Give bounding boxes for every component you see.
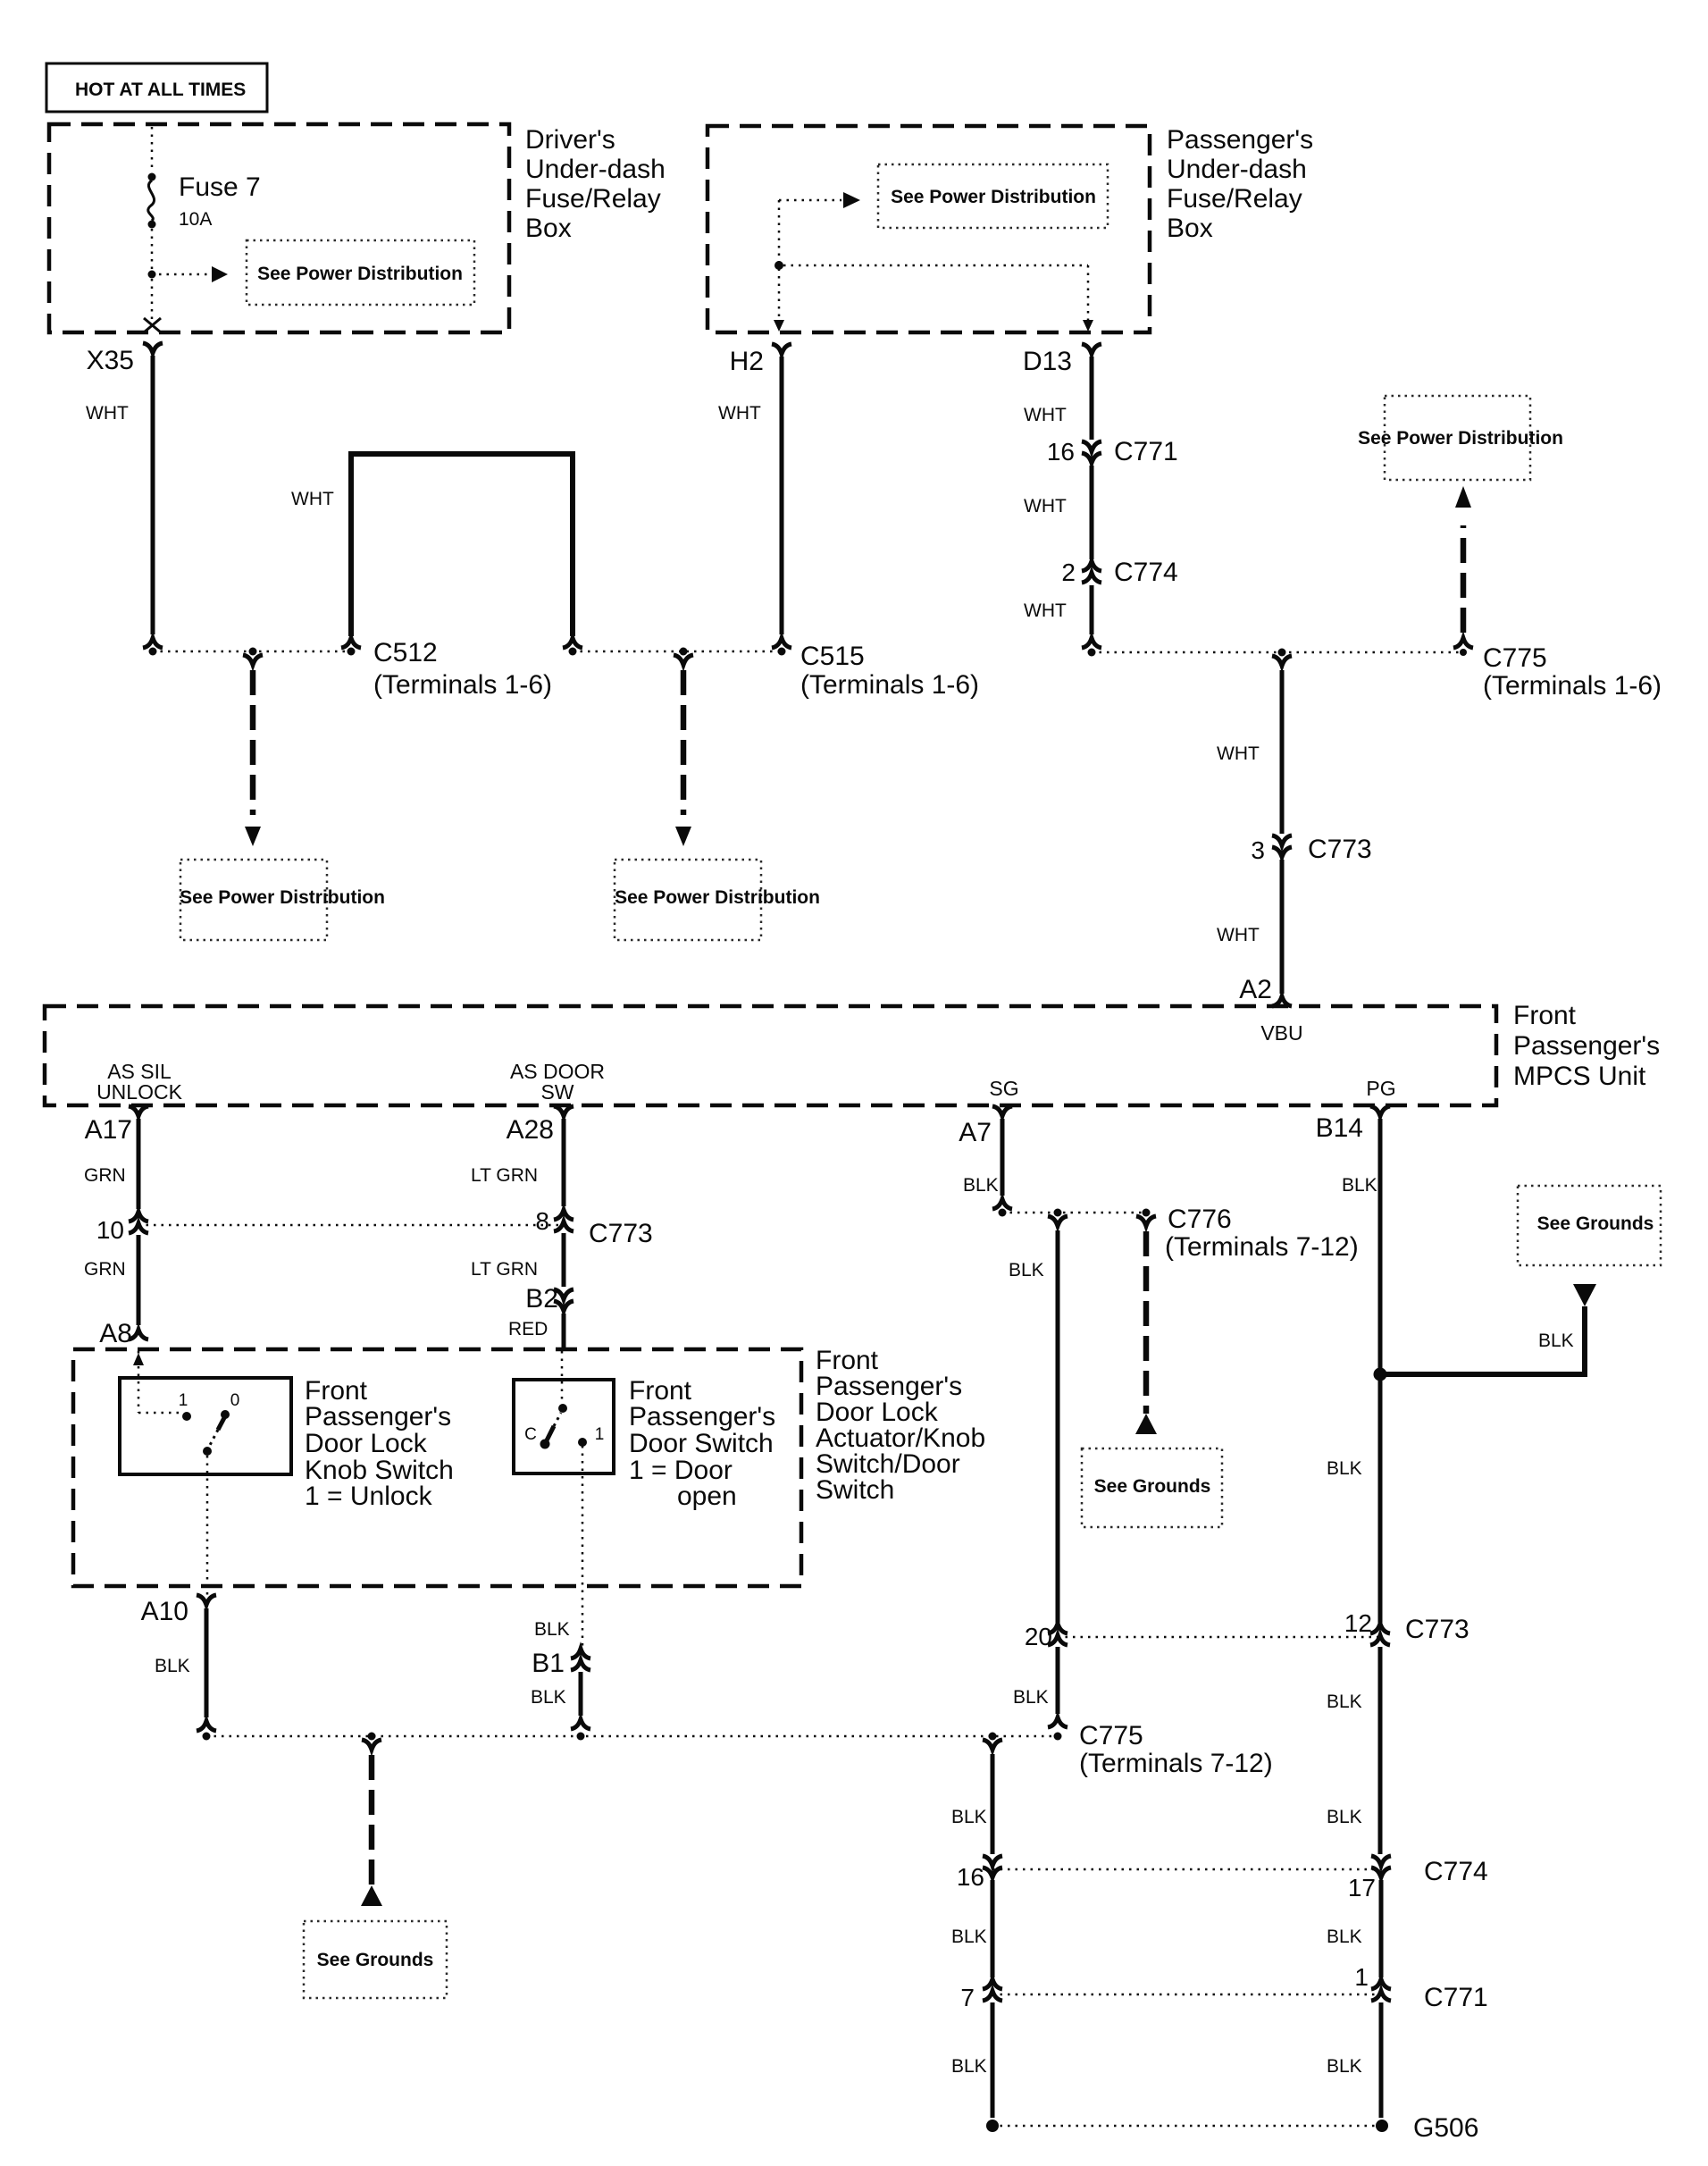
wire: dotted splice line to C776 (1002, 1212, 1146, 1214)
node: ground bus dot at lower-left column (989, 1733, 997, 1741)
switch lever (knob switch) (208, 1413, 227, 1448)
connector C773 pin 10 (96, 1212, 148, 1244)
wire WHT: C774 down to bus (1024, 585, 1101, 648)
wire: dotted connector alignment line pins 20-12 (1058, 1636, 1380, 1639)
wire BLK: A10 down to ground bus (155, 1608, 216, 1731)
wire WHT: H2 down to bus (718, 357, 791, 648)
wire BLK: A7 down to splice (963, 1119, 1012, 1209)
svg-text:C773: C773 (1405, 1615, 1469, 1644)
terminal A8 (knob switch) (99, 1319, 148, 1348)
svg-text:B2: B2 (525, 1284, 558, 1314)
svg-text:BLK: BLK (1327, 1692, 1362, 1712)
svg-text:A2: A2 (1239, 975, 1272, 1004)
svg-text:Front: Front (1513, 1001, 1577, 1030)
svg-text:BLK: BLK (531, 1687, 566, 1708)
svg-text:C774: C774 (1114, 558, 1178, 587)
svg-text:12: 12 (1344, 1609, 1372, 1637)
svg-text:LT GRN: LT GRN (471, 1259, 538, 1280)
node: See Power Distribution reference (right) (1358, 396, 1563, 480)
wire BLK: pin 17 down to pin 1 (1327, 1880, 1381, 1977)
svg-text:See Grounds: See Grounds (1537, 1213, 1654, 1234)
wire: dotted splice bus C515 (573, 651, 782, 653)
svg-text:BLK: BLK (951, 2056, 987, 2077)
terminal A2 (MPCS VBU input) (1239, 975, 1292, 1006)
node: See Power Distribution reference (middle lower) (615, 860, 820, 940)
node: See Power Distribution reference (passenger box) (878, 164, 1108, 228)
svg-text:WHT: WHT (86, 403, 129, 424)
node: branch dot to See Grounds (368, 1733, 376, 1741)
terminal B14 (1316, 1106, 1390, 1143)
wire: dashed arrow up to See Power Distribution (right) (1453, 486, 1473, 648)
svg-text:GRN: GRN (84, 1259, 126, 1280)
svg-text:20: 20 (1025, 1623, 1052, 1650)
connector C773 pin 8 (535, 1207, 652, 1248)
node: See Grounds reference (bottom middle) (304, 1921, 447, 1998)
wire BLK: B1 down to ground bus (531, 1672, 590, 1729)
switch: Front Passenger's Door Switch (514, 1376, 775, 1511)
wire: dotted below fuse (151, 229, 154, 271)
wire: dotted arrow to See Power Distribution (passenger box) (779, 199, 841, 202)
wire BLK: pin 12 down to pin 17 (1327, 1647, 1380, 1854)
svg-text:A17: A17 (85, 1115, 132, 1145)
wire WHT: bridge jumper between C512 and C515 buses (291, 454, 582, 648)
wire WHT: bus down to connector C773 pin 3 (1217, 656, 1292, 834)
switch lever (door switch) (545, 1413, 561, 1444)
node: splice dot at A2 branch (1278, 649, 1286, 657)
svg-text:1: 1 (179, 1391, 188, 1410)
label: connector C512 (373, 638, 552, 700)
node: branch dot to power distribution (second) (680, 648, 688, 656)
connector B2 (525, 1284, 574, 1314)
terminal H2 (730, 344, 791, 376)
svg-text:BLK: BLK (1009, 1260, 1044, 1280)
wire: dotted down to X35 exit with X mark (151, 279, 154, 320)
svg-text:Switch: Switch (816, 1475, 894, 1505)
svg-text:WHT: WHT (1217, 743, 1260, 764)
svg-text:RED: RED (508, 1319, 548, 1339)
svg-text:Passenger's: Passenger's (1167, 125, 1313, 155)
svg-text:Under-dash: Under-dash (1167, 155, 1307, 184)
svg-text:Box: Box (1167, 214, 1213, 243)
node: ground bus dot at C775 (1054, 1733, 1062, 1741)
svg-text:C771: C771 (1424, 1983, 1488, 2012)
svg-text:Box: Box (525, 214, 572, 243)
wire BLK: pin 20 down to C775 stub (1013, 1647, 1067, 1727)
svg-text:1 = Unlock: 1 = Unlock (305, 1482, 433, 1511)
svg-text:See Grounds: See Grounds (1094, 1476, 1211, 1497)
wire WHT: C773 down to MPCS terminal A2 (1217, 860, 1282, 994)
connector C773 pin 3 (1251, 835, 1371, 864)
svg-text:Passenger's: Passenger's (1513, 1031, 1660, 1061)
svg-text:BLK: BLK (155, 1656, 190, 1676)
svg-text:10: 10 (96, 1216, 124, 1244)
node: branch junction to power distribution arrow (148, 271, 156, 279)
svg-text:16: 16 (957, 1863, 984, 1891)
svg-text:Fuse 7: Fuse 7 (179, 172, 261, 202)
wire: dashed arrow down to See Power Distribution (second) (674, 655, 693, 846)
svg-text:BLK: BLK (1013, 1687, 1049, 1708)
component: Driver's Under-dash Fuse/Relay Box (dashed enclosure) (49, 124, 666, 332)
svg-text:VBU: VBU (1260, 1021, 1302, 1045)
svg-text:C: C (524, 1425, 537, 1444)
svg-text:A10: A10 (141, 1597, 188, 1626)
node: See Grounds reference (middle) (1082, 1448, 1222, 1527)
svg-text:C515: C515 (800, 642, 865, 671)
wire: dotted ground splice bus (206, 1735, 1059, 1738)
svg-text:C775: C775 (1079, 1721, 1143, 1750)
terminal A28 (507, 1106, 574, 1145)
wire: dotted splice bus C512 (153, 651, 351, 653)
connector C773 pin 12 (1344, 1609, 1469, 1645)
svg-text:C771: C771 (1114, 437, 1178, 466)
svg-text:Fuse/Relay: Fuse/Relay (1167, 184, 1302, 214)
node: branch dot to power distribution (249, 648, 257, 656)
svg-text:open: open (677, 1482, 737, 1511)
svg-text:A7: A7 (959, 1118, 992, 1147)
svg-text:BLK: BLK (951, 1807, 987, 1827)
connector C771 pin 1 (1354, 1963, 1487, 2012)
connector C771 pin 16 (1047, 437, 1178, 466)
svg-text:BLK: BLK (951, 1927, 987, 1947)
wire: dotted feed above fuse (151, 127, 154, 172)
svg-text:PG: PG (1366, 1077, 1395, 1100)
terminal A17 (85, 1106, 148, 1145)
svg-text:BLK: BLK (1327, 1807, 1362, 1827)
svg-text:H2: H2 (730, 347, 764, 376)
node: knob switch contact 0 (221, 1410, 230, 1419)
wire BLK: branch right and up to See Grounds (1380, 1284, 1596, 1374)
svg-text:Fuse/Relay: Fuse/Relay (525, 184, 661, 214)
svg-text:BLK: BLK (534, 1619, 570, 1640)
wire GRN: pin 10 down to A8 (84, 1235, 138, 1325)
svg-text:WHT: WHT (1024, 405, 1067, 425)
svg-text:WHT: WHT (718, 403, 761, 424)
node: splice dot at D13 column (1088, 649, 1096, 657)
wire: dotted path from A8 into knob switch contact 1 (133, 1353, 144, 1365)
terminal D13 (1023, 344, 1101, 376)
wire: dotted connector alignment line pins 10-8 (138, 1224, 559, 1227)
wire BLK: pin 16 down to pin 7 (951, 1880, 992, 1977)
svg-text:See Power Distribution: See Power Distribution (257, 264, 463, 284)
svg-text:BLK: BLK (1327, 2056, 1362, 2077)
label: connector C515 (800, 642, 979, 700)
svg-text:C773: C773 (1308, 835, 1372, 864)
node: internal junction dot (774, 261, 783, 270)
node: ground bus dot at B1 (577, 1733, 585, 1741)
svg-text:(Terminals 1-6): (Terminals 1-6) (1483, 671, 1662, 701)
connector C775 pin 20 (1025, 1623, 1067, 1650)
connector C771 pin 7 (960, 1979, 1002, 2011)
terminal A7 (959, 1106, 1012, 1147)
svg-text:See Power Distribution: See Power Distribution (180, 887, 385, 908)
svg-text:(Terminals 7-12): (Terminals 7-12) (1165, 1232, 1359, 1262)
wire: dotted from pivot down through box to A10 (206, 1456, 209, 1596)
ground G506 (1376, 2113, 1478, 2143)
svg-text:1: 1 (1354, 1963, 1369, 1991)
svg-text:Under-dash: Under-dash (525, 155, 666, 184)
wire LT GRN: pin 8 to B2 (471, 1233, 564, 1287)
svg-text:A8: A8 (99, 1319, 132, 1348)
wire BLK: B14 down to junction (1327, 1119, 1380, 1623)
node: See Power Distribution reference (left lower) (180, 860, 385, 940)
connector C774 pin 17 (1348, 1856, 1488, 1902)
svg-text:LT GRN: LT GRN (471, 1165, 538, 1186)
svg-text:BLK: BLK (1538, 1331, 1574, 1351)
svg-text:Passenger's: Passenger's (629, 1402, 775, 1431)
svg-text:See Power Distribution: See Power Distribution (615, 887, 820, 908)
svg-text:C512: C512 (373, 638, 438, 667)
wire WHT: C771 to C774 (1024, 466, 1092, 559)
node: splice dots for bridge (347, 648, 356, 656)
svg-text:WHT: WHT (1024, 496, 1067, 516)
svg-text:Door Lock: Door Lock (305, 1429, 428, 1458)
node: ground bus dot at A10 (203, 1733, 211, 1741)
node: splice dot at H2 column (778, 648, 786, 656)
svg-text:HOT AT ALL TIMES: HOT AT ALL TIMES (75, 80, 246, 100)
wire: dotted from B2 into door switch (561, 1351, 564, 1401)
component: Front Passenger's Door Lock Actuator/Knob Switch/Door Switch (dashed enclosure) (73, 1346, 985, 1586)
node: door switch common contact (540, 1440, 550, 1449)
wire BLK: lower-left column down to pin 16 (951, 1740, 1002, 1854)
svg-text:GRN: GRN (84, 1165, 126, 1186)
fuse F7 (Fuse 7, 10A) (148, 172, 261, 230)
svg-text:WHT: WHT (291, 489, 334, 509)
wire: dashed arrow down to See Grounds (361, 1740, 382, 1906)
svg-text:2: 2 (1061, 558, 1076, 586)
node: door switch contact 1 (578, 1438, 587, 1447)
svg-text:See Power Distribution: See Power Distribution (891, 187, 1096, 207)
svg-text:Driver's: Driver's (525, 125, 615, 155)
wire: dotted internal feed to D13 (783, 265, 1088, 322)
svg-text:C776: C776 (1168, 1205, 1232, 1234)
svg-text:B14: B14 (1316, 1113, 1363, 1143)
svg-text:SG: SG (989, 1077, 1018, 1100)
wire WHT: D13 to connector C771 (1024, 357, 1092, 440)
wire: dotted from contact 1 down through box to B1 (582, 1446, 584, 1651)
wire GRN: A17 to connector pin 10 (84, 1119, 138, 1209)
svg-text:(Terminals 7-12): (Terminals 7-12) (1079, 1749, 1273, 1778)
svg-text:7: 7 (960, 1984, 975, 2011)
wire: dotted arrow to See Power Distribution (driver box) (159, 273, 210, 276)
wire BLK: pin 1 down to ground G506 (1327, 2002, 1381, 2118)
wire RED: B2 into door switch (508, 1314, 564, 1351)
wire: dotted connector alignment line pins 16-17 (992, 1868, 1382, 1871)
svg-text:MPCS Unit: MPCS Unit (1513, 1062, 1646, 1091)
node: door switch top contact (558, 1404, 567, 1413)
node: branch dot SG column (1054, 1209, 1062, 1217)
svg-text:X35: X35 (87, 346, 134, 375)
node: See Grounds reference (right) (1518, 1186, 1661, 1265)
wire: dashed arrow down to See Grounds (C776) (1135, 1216, 1157, 1434)
svg-text:16: 16 (1047, 438, 1075, 466)
terminal A10 (141, 1595, 216, 1626)
connector B1 (532, 1649, 590, 1678)
node: junction above fuse (148, 173, 156, 181)
svg-text:C775: C775 (1483, 643, 1547, 673)
svg-text:WHT: WHT (1217, 925, 1260, 945)
svg-text:WHT: WHT (1024, 600, 1067, 621)
svg-text:A28: A28 (507, 1115, 554, 1145)
label: connector C775 (terminals 1-6) (1483, 643, 1662, 701)
wire: dotted connector alignment line pins 7-1 (992, 1994, 1382, 1996)
wire: dotted ground line to G506 (992, 2125, 1382, 2128)
svg-text:D13: D13 (1023, 347, 1072, 376)
node: knob switch pivot (203, 1447, 212, 1456)
svg-text:(Terminals 1-6): (Terminals 1-6) (373, 670, 552, 700)
label: connector C775 (terminals 7-12) (1079, 1721, 1273, 1778)
svg-text:See Power Distribution: See Power Distribution (1358, 428, 1563, 449)
connector C774 pin 2 (1061, 558, 1177, 587)
svg-text:Door Switch: Door Switch (629, 1429, 774, 1458)
node: tiny exit arrows at box bottom (774, 320, 784, 332)
svg-text:C773: C773 (589, 1219, 653, 1248)
terminal X35 (87, 343, 163, 375)
wire BLK: pin 7 down to ground G506 (951, 2002, 992, 2118)
label: connector C776 (1165, 1205, 1359, 1262)
wire LT GRN: A28 to connector pin 8 (471, 1119, 564, 1206)
svg-text:10A: 10A (179, 209, 212, 230)
wire WHT: X35 down to splice bus (86, 356, 163, 648)
node: ground splice dot (left) (986, 2120, 999, 2132)
component: Front Passenger's MPCS Unit (dashed enclosure) (45, 1001, 1660, 1105)
connector C774 pin 16 (957, 1856, 1002, 1891)
node: junction dot to See Grounds branch (1374, 1368, 1387, 1381)
wire: dotted splice bus C775 (1092, 651, 1463, 654)
node: splice dot below A7 (999, 1209, 1007, 1217)
svg-text:BLK: BLK (1342, 1175, 1377, 1196)
svg-text:Passenger's: Passenger's (305, 1402, 451, 1431)
svg-text:B1: B1 (532, 1649, 565, 1678)
svg-text:17: 17 (1348, 1874, 1376, 1902)
svg-text:UNLOCK: UNLOCK (96, 1080, 183, 1104)
node: knob switch contact 1 (182, 1412, 191, 1421)
svg-text:SW: SW (540, 1080, 574, 1104)
node: dot at C776 (1143, 1209, 1151, 1217)
node: splice dot at C775 (1460, 649, 1467, 656)
node: junction below fuse (148, 221, 156, 229)
svg-text:BLK: BLK (1327, 1458, 1362, 1479)
switch: Front Passenger's Door Lock Knob Switch (120, 1376, 454, 1511)
wire: dashed arrow down to See Power Distribution (243, 655, 263, 846)
svg-text:3: 3 (1251, 836, 1265, 864)
svg-text:(Terminals 1-6): (Terminals 1-6) (800, 670, 979, 700)
svg-text:G506: G506 (1413, 2113, 1478, 2143)
node: See Power Distribution reference (driver box) (247, 240, 474, 305)
node: splice dot at X35 column (149, 648, 157, 656)
svg-text:C774: C774 (1424, 1857, 1488, 1886)
svg-text:8: 8 (535, 1207, 549, 1235)
svg-text:0: 0 (230, 1391, 240, 1410)
node: HOT AT ALL TIMES title box (46, 63, 267, 112)
wire BLK: SG column down to connector pin 20 (1009, 1216, 1067, 1623)
svg-text:See Grounds: See Grounds (317, 1950, 434, 1970)
wire: dotted internal feed from H2 up (778, 200, 781, 323)
svg-text:1: 1 (595, 1425, 605, 1444)
svg-text:BLK: BLK (963, 1175, 999, 1196)
svg-text:BLK: BLK (1327, 1927, 1362, 1947)
component: Passenger's Under-dash Fuse/Relay Box (dashed enclosure) (707, 125, 1313, 332)
